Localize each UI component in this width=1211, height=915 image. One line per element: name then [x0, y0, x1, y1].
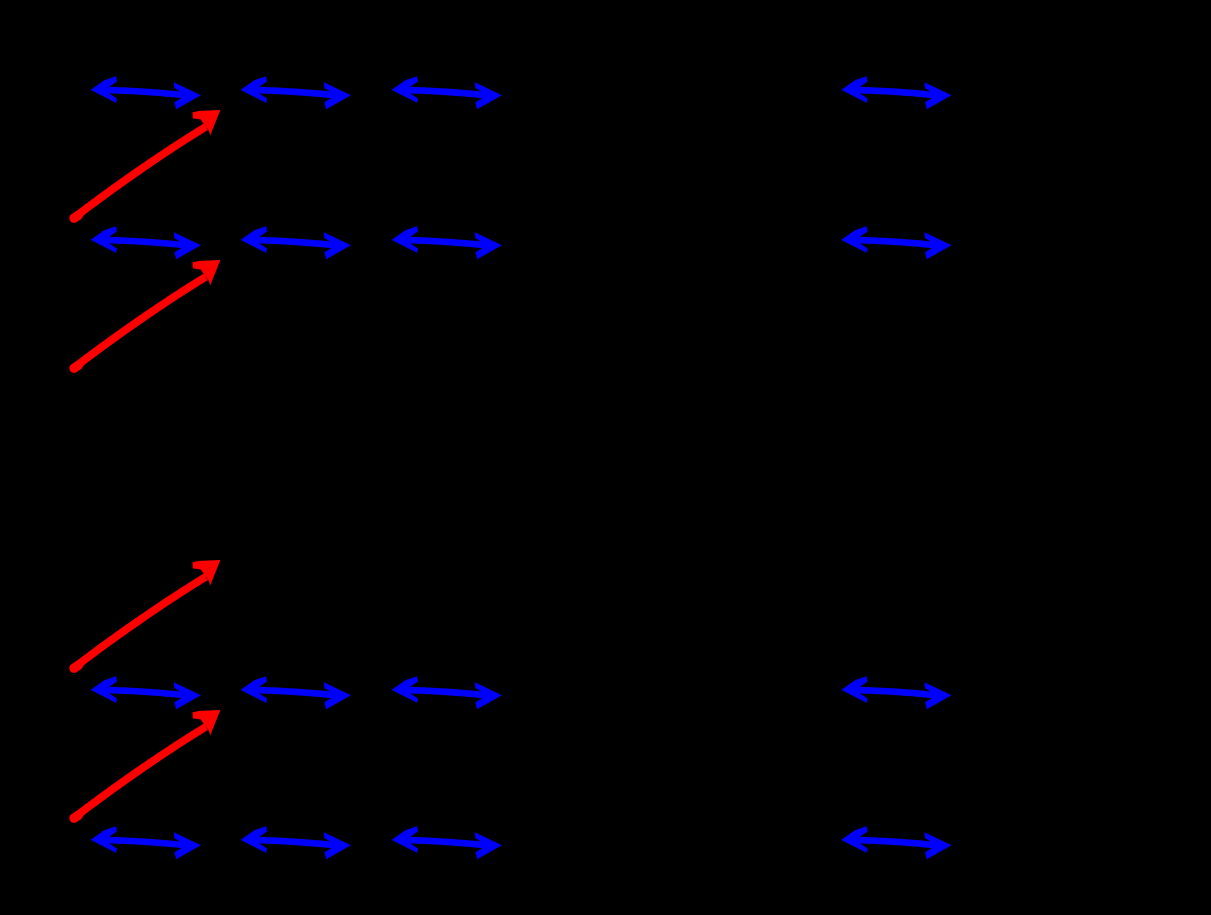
blue double arrow row2 col1	[91, 226, 201, 259]
blue double arrow row3 col2	[241, 676, 351, 709]
blue double arrow row2 col2	[241, 226, 351, 259]
blue double arrow row4 col4	[841, 826, 951, 859]
blue double arrow row4 col2	[241, 826, 351, 859]
blue double arrow row1 col1	[91, 76, 201, 109]
blue double arrow row2 col4	[841, 226, 951, 259]
red arrow 4	[73, 710, 220, 819]
blue double arrow row4 col1	[91, 826, 201, 859]
blue double arrow row3 col4	[841, 676, 951, 709]
blue double arrow row2 col3	[392, 226, 502, 259]
blue double arrow row1 col4	[841, 76, 951, 109]
blue double arrow row3 col1	[91, 676, 201, 709]
blue double arrow row4 col3	[392, 826, 502, 859]
red arrow 3	[73, 560, 220, 669]
blue double arrow row3 col3	[392, 676, 502, 709]
red arrow 1	[73, 110, 220, 219]
blue double arrow row1 col2	[241, 76, 351, 109]
red arrow 2	[73, 260, 220, 369]
blue double arrow row1 col3	[392, 76, 502, 109]
